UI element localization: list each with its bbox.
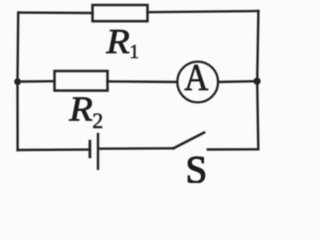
- wire: switch contact to bottom-right corner: [208, 148, 258, 151]
- wire: junction to R2: [18, 80, 55, 83]
- svg-text:2: 2: [92, 108, 103, 133]
- wire: right vertical: [257, 11, 258, 149]
- wire: left vertical: [16, 13, 19, 150]
- wire: ammeter to right junction: [218, 80, 257, 83]
- svg-text:A: A: [184, 56, 208, 98]
- label R2: [68, 89, 103, 133]
- node: right junction dot: [253, 78, 260, 85]
- resistor R2: [55, 71, 108, 91]
- label R1: [105, 21, 139, 63]
- svg-text:R: R: [105, 21, 130, 60]
- svg-text:S: S: [186, 148, 208, 183]
- node: left junction dot: [14, 78, 21, 85]
- svg-text:R: R: [68, 89, 93, 128]
- wire: bottom-left to battery: [18, 148, 89, 151]
- battery: short plate: [89, 141, 92, 157]
- ammeter A: [177, 62, 218, 103]
- switch S blade (open): [174, 133, 205, 149]
- wire: R2 to ammeter: [108, 80, 178, 83]
- wire: battery to switch pivot: [99, 147, 174, 150]
- wire: top-left segment to R1: [18, 11, 92, 14]
- wire: R1 to top-right corner: [148, 11, 259, 12]
- battery: long plate: [97, 134, 99, 169]
- svg-text:1: 1: [129, 41, 139, 63]
- resistor R1: [93, 5, 148, 21]
